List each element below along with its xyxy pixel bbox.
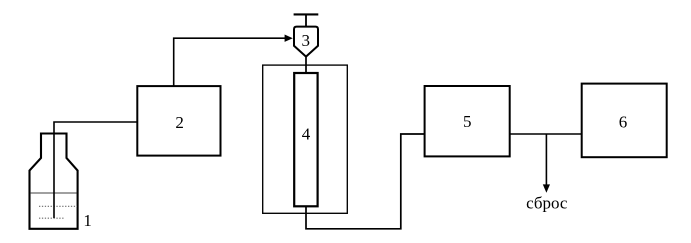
svg-text:4: 4 — [302, 125, 311, 144]
svg-text:6: 6 — [619, 113, 628, 132]
column 4 — [294, 73, 317, 206]
svg-text:5: 5 — [463, 112, 472, 131]
svg-text:1: 1 — [83, 211, 92, 230]
wire: box 5 to box 6 — [510, 133, 582, 135]
jacket rectangle around column 4 — [263, 65, 348, 213]
svg-text:сброс: сброс — [526, 194, 568, 213]
arrowhead into hopper 3 — [285, 35, 293, 42]
box 6 — [582, 84, 667, 158]
wire: dip tube from bottle 1 up and right to box 2 — [54, 122, 138, 218]
liquid level line in bottle 1 — [31, 192, 77, 194]
dotted liquid line lower — [39, 217, 65, 219]
box 2 — [137, 86, 220, 156]
valve T bar on top of hopper 3 — [294, 13, 319, 15]
arrowhead discharge — [543, 184, 550, 192]
svg-text:3: 3 — [301, 31, 310, 50]
wire: branch down to discharge — [545, 134, 547, 185]
valve stem — [305, 14, 307, 26]
svg-text:2: 2 — [175, 113, 184, 132]
wire: box 2 top to hopper 3 — [174, 38, 285, 86]
bottle 1 (reservoir flask outline) — [30, 134, 78, 229]
hopper 3 (funnel) — [294, 27, 318, 57]
wire: hopper 3 tip down to column 4 — [305, 56, 307, 75]
dotted liquid line upper — [39, 205, 77, 207]
wire: column 4 bottom down, right and up into box 5 — [306, 134, 425, 229]
box 5 — [425, 86, 510, 156]
